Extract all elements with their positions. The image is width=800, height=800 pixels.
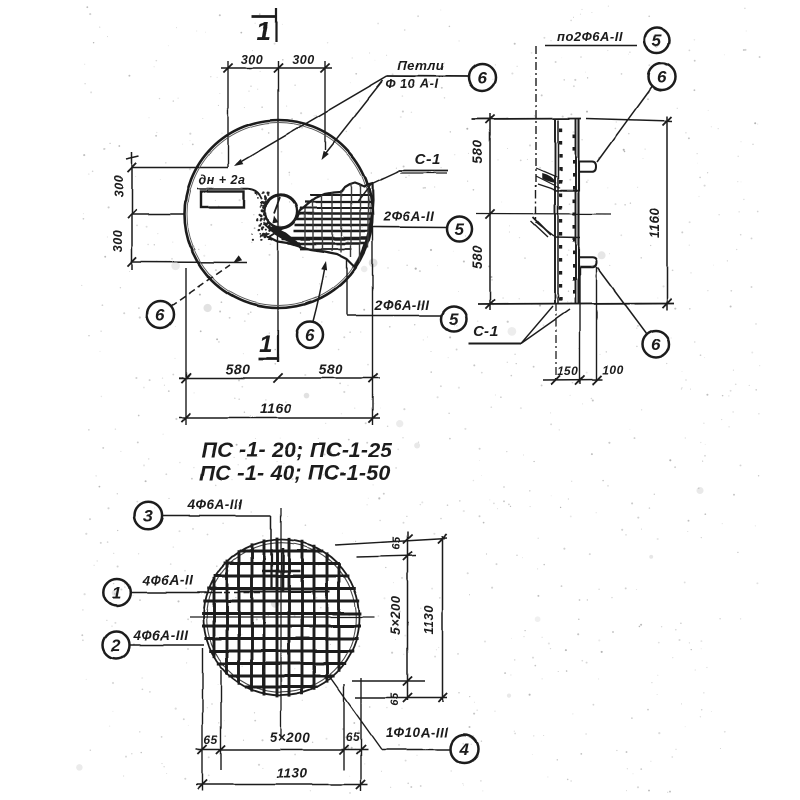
svg-text:2Ф6А-III: 2Ф6А-III — [373, 298, 429, 313]
svg-text:6: 6 — [156, 306, 166, 325]
svg-text:5: 5 — [449, 310, 459, 329]
svg-text:4Ф6А-III: 4Ф6А-III — [186, 497, 242, 512]
svg-text:5: 5 — [455, 220, 465, 239]
svg-text:С-1: С-1 — [415, 151, 441, 168]
svg-text:300: 300 — [241, 53, 263, 67]
svg-text:1160: 1160 — [647, 207, 662, 238]
svg-text:580: 580 — [226, 361, 251, 377]
svg-text:3: 3 — [143, 507, 153, 526]
svg-text:300: 300 — [292, 53, 314, 67]
svg-text:5: 5 — [652, 31, 662, 50]
svg-text:1: 1 — [257, 16, 272, 46]
svg-text:1: 1 — [112, 584, 122, 603]
svg-text:1130: 1130 — [421, 605, 436, 635]
svg-text:1Ф10А-III: 1Ф10А-III — [385, 725, 448, 740]
svg-text:6: 6 — [657, 68, 667, 87]
svg-text:1: 1 — [259, 331, 273, 358]
svg-text:65: 65 — [389, 692, 401, 706]
svg-text:100: 100 — [602, 363, 624, 377]
svg-text:ПС -1- 40; ПС-1-50: ПС -1- 40; ПС-1-50 — [199, 461, 390, 485]
svg-text:4Ф6А-II: 4Ф6А-II — [142, 573, 194, 588]
svg-text:580: 580 — [470, 140, 485, 164]
svg-text:65: 65 — [346, 730, 360, 744]
svg-text:300: 300 — [112, 175, 126, 197]
svg-text:1130: 1130 — [276, 766, 307, 781]
svg-text:Петли: Петли — [398, 58, 445, 73]
svg-text:Ф 10 А-I: Ф 10 А-I — [385, 76, 438, 91]
svg-text:1160: 1160 — [260, 400, 292, 416]
svg-text:580: 580 — [470, 245, 485, 269]
svg-text:65: 65 — [391, 536, 403, 550]
svg-text:4Ф6А-III: 4Ф6А-III — [132, 628, 188, 643]
svg-text:ПС -1- 20; ПС-1-25: ПС -1- 20; ПС-1-25 — [201, 438, 393, 462]
svg-text:5×200: 5×200 — [388, 595, 403, 634]
svg-text:2Ф6А-II: 2Ф6А-II — [383, 209, 435, 224]
svg-text:580: 580 — [319, 361, 344, 377]
svg-text:6: 6 — [477, 69, 487, 88]
svg-text:65: 65 — [204, 733, 218, 747]
svg-text:С-1: С-1 — [473, 323, 499, 340]
svg-text:6: 6 — [651, 335, 661, 354]
svg-text:2: 2 — [110, 636, 121, 655]
svg-text:по2Ф6А-II: по2Ф6А-II — [557, 29, 623, 44]
svg-text:150: 150 — [557, 364, 579, 378]
svg-text:дн + 2а: дн + 2а — [199, 173, 246, 187]
svg-text:5×200: 5×200 — [270, 730, 310, 745]
svg-text:300: 300 — [111, 230, 125, 252]
svg-text:6: 6 — [305, 326, 315, 345]
svg-text:4: 4 — [459, 740, 470, 759]
